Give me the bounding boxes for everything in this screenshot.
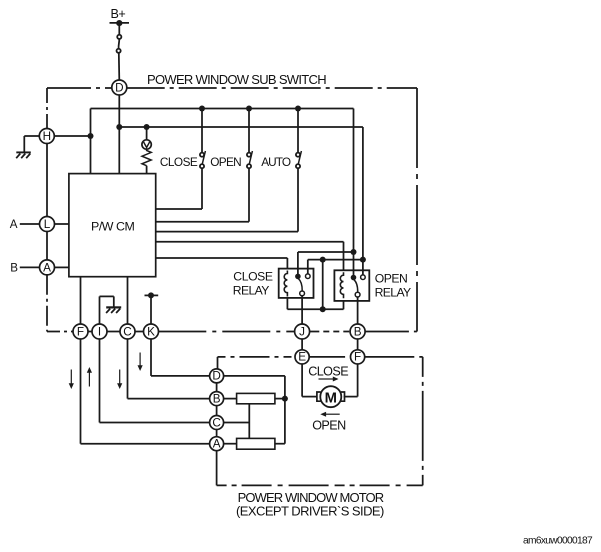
motor boundary top edge	[218, 356, 423, 358]
svg-text:B: B	[10, 262, 18, 275]
pin C	[120, 324, 135, 339]
motor M	[317, 386, 345, 407]
relay OPEN NO contact	[361, 275, 366, 280]
wire resistor tap vertical	[248, 404, 250, 439]
resistor (lamp series)	[142, 149, 151, 166]
wire motor pin F to motor	[344, 364, 358, 397]
svg-text:M: M	[325, 390, 337, 406]
wire motor D to resistor column	[223, 376, 285, 444]
node close-NO joins B+ vertical	[360, 257, 366, 263]
wire pin D down into P/W CM	[118, 95, 120, 174]
wire H to ground rail junction	[54, 135, 91, 137]
node AUTO switch top	[295, 106, 301, 112]
resistor R2	[237, 438, 275, 449]
svg-text:OPEN: OPEN	[210, 155, 241, 169]
pin D	[112, 80, 127, 95]
wire pin F down to motor A lead	[81, 339, 211, 444]
svg-text:A: A	[10, 218, 18, 231]
svg-text:D: D	[212, 370, 220, 383]
wire resistor 1 to column	[275, 398, 285, 400]
switch OPEN	[156, 109, 253, 222]
sub switch boundary bottom edge	[47, 331, 417, 333]
pin J	[295, 324, 310, 339]
pin H	[39, 129, 54, 144]
motor boundary right edge	[422, 357, 424, 486]
fusible link	[117, 35, 122, 53]
motor pin C	[210, 416, 224, 430]
current arrow up (I)	[87, 367, 92, 387]
pin L	[40, 217, 55, 232]
relay OPEN moving contact	[355, 292, 360, 297]
wire motor A to resistor 2	[223, 443, 236, 445]
relay OPEN common contact	[351, 275, 357, 281]
wire P/W CM to pin F	[80, 277, 82, 325]
relay OPEN box	[334, 270, 369, 301]
wire coil feed vertical	[322, 260, 324, 310]
svg-text:H: H	[43, 130, 51, 143]
svg-text:J: J	[299, 325, 305, 338]
node coil feed tap	[320, 257, 326, 263]
wire close relay to pin J	[301, 296, 303, 325]
svg-text:E: E	[298, 351, 306, 364]
svg-text:C: C	[212, 416, 220, 429]
svg-text:A: A	[213, 438, 221, 451]
relay OPEN armature	[354, 280, 358, 292]
arrow close direction	[319, 377, 339, 382]
node D rail	[116, 124, 122, 130]
ground (P/W CM internal at I)	[100, 296, 122, 324]
svg-text:L: L	[44, 218, 51, 231]
svg-text:OPEN: OPEN	[312, 419, 346, 433]
pin B	[350, 324, 365, 339]
svg-text:OPEN: OPEN	[375, 271, 408, 285]
node lamp top	[144, 124, 150, 130]
wire motor B to resistor 1	[223, 398, 236, 400]
wire P/W CM to pin C	[127, 277, 129, 325]
wire pin K down to motor D lead	[151, 339, 210, 376]
ground (left, at H)	[16, 136, 39, 158]
pin K	[144, 324, 159, 339]
wire resistor to P/W CM	[146, 166, 148, 174]
wire motor pin E to motor	[302, 364, 316, 397]
B+ rail line2	[119, 127, 363, 276]
svg-text:I: I	[98, 325, 101, 338]
wire close relay NO to B+ rail	[307, 260, 309, 276]
relay OPEN coil	[340, 272, 343, 298]
current arrow down (C)	[117, 370, 122, 390]
relay CLOSE box	[279, 269, 314, 298]
wire pin J to motor pin E	[301, 339, 303, 351]
P/W CM module box	[69, 174, 156, 277]
current arrow down (F)	[69, 370, 74, 390]
wire B to pin A	[20, 266, 40, 268]
pin A	[40, 260, 55, 275]
svg-text:K: K	[147, 325, 155, 338]
svg-text:RELAY: RELAY	[233, 284, 269, 298]
wire coil bottoms link	[287, 298, 343, 309]
sub switch boundary left edge	[46, 88, 48, 332]
wire pin A to P/W CM	[54, 266, 69, 268]
motor boundary left edge segments	[216, 383, 218, 486]
node junction H rail	[88, 133, 94, 139]
wire close relay common to ground rail	[297, 252, 299, 276]
svg-text:A: A	[43, 261, 51, 274]
svg-text:POWER WINDOW SUB SWITCH: POWER WINDOW SUB SWITCH	[147, 72, 326, 87]
svg-text:B: B	[354, 325, 362, 338]
svg-text:F: F	[354, 351, 361, 364]
motor boundary bottom edge	[217, 484, 423, 486]
motor boundary corner to pin D	[217, 357, 219, 370]
node resistor column	[282, 396, 288, 402]
wire P/W CM to open relay coil	[156, 242, 344, 271]
motor pin D	[210, 369, 224, 383]
svg-text:RELAY: RELAY	[375, 286, 411, 300]
switch CLOSE	[156, 109, 206, 210]
svg-text:AUTO: AUTO	[261, 155, 291, 169]
motor pin B	[210, 392, 224, 406]
node CLOSE switch top	[199, 106, 205, 112]
wire fusible link to pin D	[118, 53, 121, 80]
svg-text:P/W CM: P/W CM	[91, 220, 135, 234]
current arrow down (K)	[138, 353, 143, 372]
sub switch boundary top edge	[47, 87, 417, 89]
pin F	[73, 324, 88, 339]
relay CLOSE moving contact	[300, 291, 305, 296]
wire B+ to fusible link	[118, 26, 120, 35]
relay CLOSE coil	[284, 271, 287, 297]
indicator lamp	[142, 127, 151, 149]
svg-text:CLOSE: CLOSE	[160, 155, 198, 169]
wire resistor 2 to column	[275, 443, 285, 445]
K stub wire	[145, 292, 159, 324]
node OPEN switch top	[246, 106, 252, 112]
arrow open direction	[320, 412, 339, 417]
wire pin B to motor pin F	[357, 339, 359, 351]
wire open relay to pin B	[357, 297, 359, 324]
switch AUTO	[156, 109, 302, 232]
pin I	[92, 324, 107, 339]
battery feed terminal	[110, 20, 130, 26]
relay CLOSE common contact	[295, 274, 301, 280]
motor pin E	[295, 350, 309, 364]
wire P/W CM to close relay coil	[156, 258, 288, 269]
relay CLOSE NO contact	[306, 274, 311, 279]
relay CLOSE armature	[298, 279, 302, 291]
svg-text:B+: B+	[111, 7, 126, 21]
resistor R1	[237, 393, 275, 403]
motor pin F	[351, 350, 365, 364]
wire pin L to P/W CM	[54, 223, 69, 225]
svg-text:CLOSE: CLOSE	[233, 270, 273, 284]
wire A to pin L	[20, 223, 40, 225]
svg-text:C: C	[123, 325, 131, 338]
svg-text:(EXCEPT DRIVER`S SIDE): (EXCEPT DRIVER`S SIDE)	[236, 504, 384, 519]
svg-text:B: B	[213, 392, 221, 405]
svg-text:F: F	[77, 325, 84, 338]
svg-text:am6xuw0000187: am6xuw0000187	[523, 536, 593, 547]
motor pin A	[210, 437, 224, 451]
wire pin C down to motor B lead	[128, 339, 211, 399]
node coil bottom tap	[320, 306, 326, 312]
node close-common joins rail	[351, 249, 357, 255]
svg-text:D: D	[115, 81, 123, 94]
ground rail line1	[91, 109, 354, 277]
wire pin I down to motor C lead	[100, 339, 211, 423]
sub switch boundary right edge	[416, 88, 418, 332]
svg-text:CLOSE: CLOSE	[308, 365, 348, 379]
wire motor C to resistor tap	[223, 422, 249, 424]
